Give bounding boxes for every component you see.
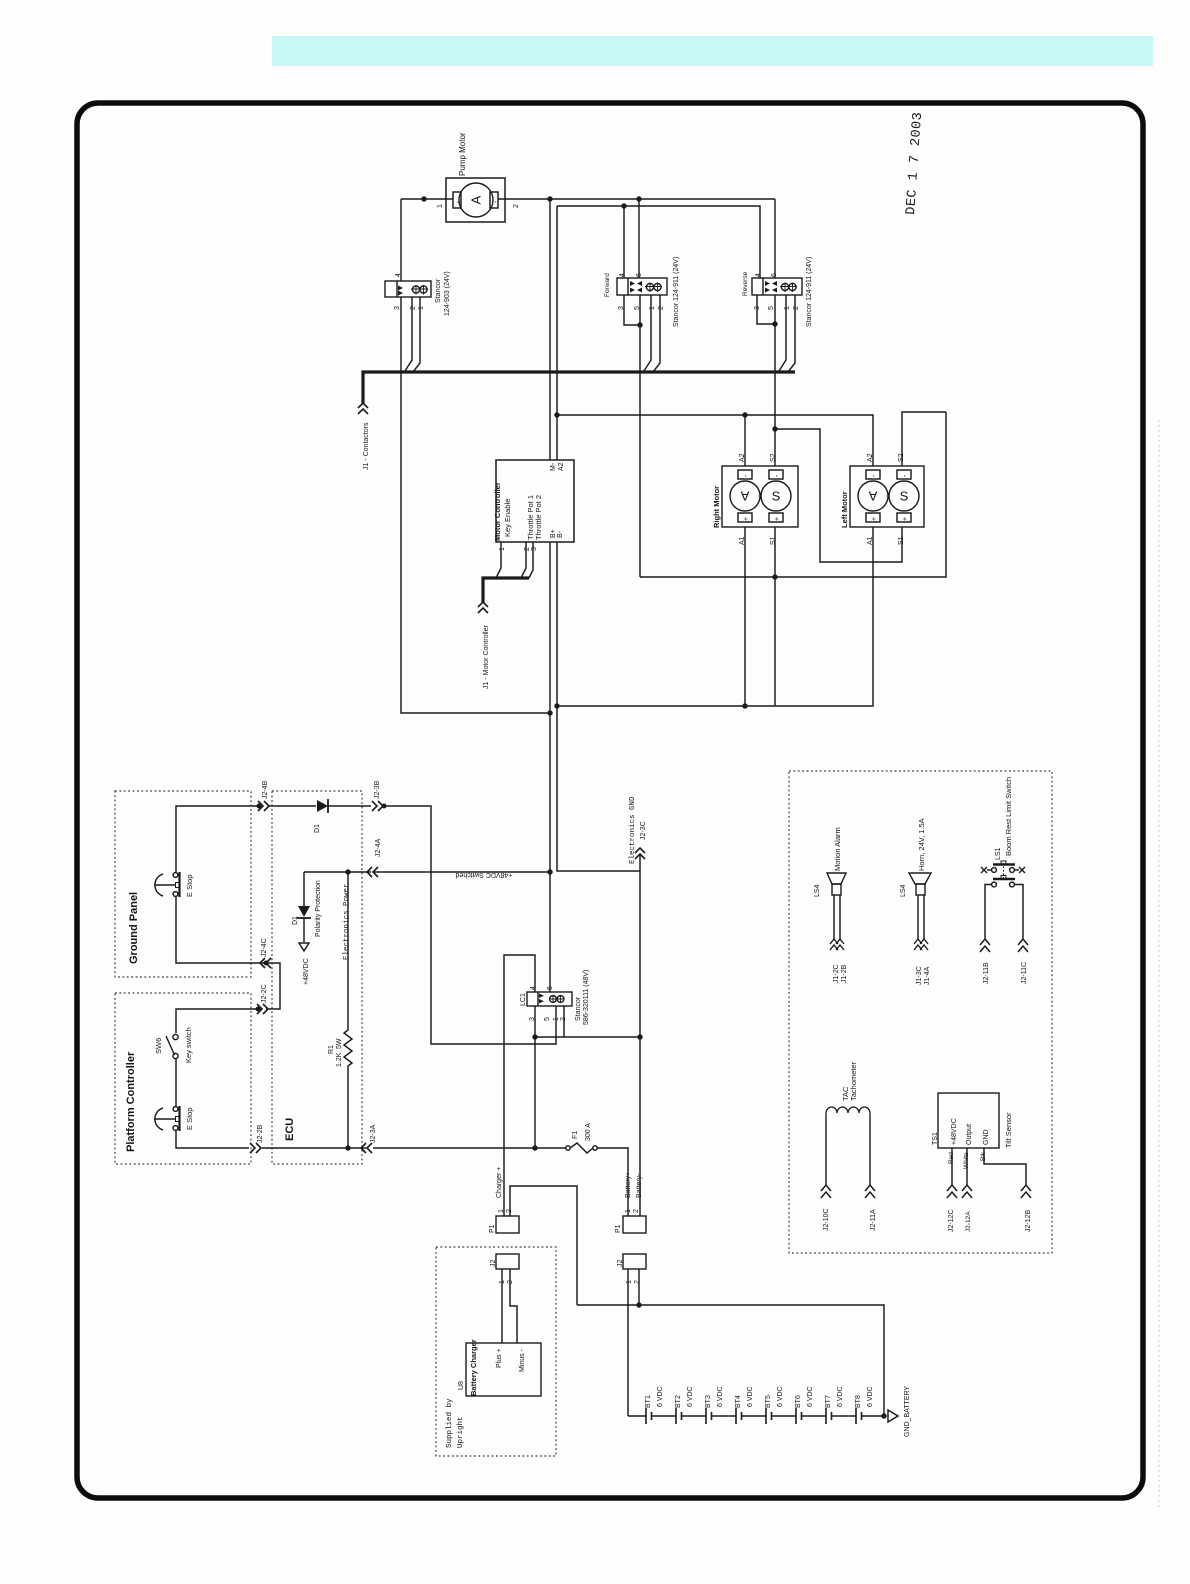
wire motion alarm lead a: [833, 895, 835, 940]
wire left pump feed vertical: [400, 199, 402, 281]
chevron J2-4A: [367, 867, 378, 877]
battery BT3 plates: [706, 1408, 712, 1424]
chevron J2-10C: [821, 1185, 831, 1198]
node forward pin4 tap: [622, 204, 626, 208]
wire LC1 coil pin2 stub: [563, 1006, 565, 1037]
svg-text:Stancor 124-911 (24V): Stancor 124-911 (24V): [673, 257, 680, 327]
svg-text:2: 2: [658, 306, 665, 310]
limit switch LS1 lower contact a: [992, 882, 997, 887]
svg-text:Battery Charger: Battery Charger: [469, 1339, 478, 1396]
svg-text:Motion Alarm: Motion Alarm: [833, 827, 842, 871]
svg-text:3: 3: [394, 306, 401, 310]
battery BT2 plates: [676, 1408, 682, 1424]
svg-text:Key switch: Key switch: [184, 1027, 193, 1063]
key switch SW6 blade: [166, 1036, 175, 1055]
node J2-4B: [257, 804, 261, 808]
svg-text:3: 3: [531, 547, 538, 551]
net arrow +48VDC: [299, 943, 309, 951]
contactor LC1 Stancor 586-320111 box: [527, 992, 572, 1006]
svg-text:LS4: LS4: [814, 884, 821, 897]
svg-text:+: +: [871, 517, 878, 521]
connector J2 charger box: [496, 1254, 519, 1269]
dashed ground panel box: [115, 791, 251, 977]
limit switch LS1 tab top: [1001, 861, 1006, 865]
faint scan dotted edge line: [1158, 420, 1160, 1510]
contactor CR1 coil hatch: [411, 285, 428, 295]
svg-text:1: 1: [418, 306, 425, 310]
contactor forward coil hatch: [645, 283, 662, 293]
wire J2 charger pin2 into U8: [510, 1269, 517, 1343]
svg-text:6 VDC: 6 VDC: [777, 1386, 784, 1407]
estop platform bar: [178, 1106, 180, 1131]
estop platform arc: [155, 1108, 163, 1130]
battery BT4 plates: [736, 1408, 742, 1424]
wire reverse pin3 dogleg: [757, 295, 775, 324]
svg-text:2: 2: [507, 1280, 514, 1284]
limit switch LS1 bar bottom: [993, 878, 1015, 880]
wire reverse pin5 down to S2 right motor: [774, 295, 776, 466]
limit switch LS1 link line right: [1014, 869, 1019, 871]
wire P1 charger pin2 to charger return: [510, 1186, 577, 1305]
svg-text:6 VDC: 6 VDC: [687, 1386, 694, 1407]
svg-text:4: 4: [755, 273, 762, 277]
wire forward coil pin1 dogleg: [644, 295, 651, 371]
svg-text:Electronics Power: Electronics Power: [343, 883, 351, 960]
svg-text:BT2: BT2: [675, 1395, 682, 1408]
left motor armature circle: [858, 481, 888, 511]
pump motor - terminal: [490, 192, 498, 208]
chevron J2-3B: [372, 801, 383, 811]
svg-text:Pump Motor: Pump Motor: [458, 132, 467, 176]
svg-text:6 VDC: 6 VDC: [867, 1386, 874, 1407]
svg-text:Reverse: Reverse: [742, 271, 749, 296]
wire D1 polarity protection drop: [303, 872, 305, 906]
svg-text:BT7: BT7: [825, 1395, 832, 1408]
resistor R1 zigzag: [344, 872, 352, 1148]
wire LC1 coil return line: [535, 1036, 640, 1038]
svg-text:BT3: BT3: [705, 1395, 712, 1408]
svg-text:Tachometer: Tachometer: [849, 1061, 858, 1101]
chevron J2-12B: [1021, 1185, 1031, 1198]
svg-text:B-: B-: [557, 530, 564, 538]
wire forward coil pin2 dogleg: [653, 295, 660, 372]
svg-text:Supplied by: Supplied by: [446, 1398, 454, 1448]
wire key switch to platform estop: [175, 1058, 177, 1106]
estop ground panel plunger: [154, 884, 175, 886]
node right motor A2 tap: [743, 413, 747, 417]
svg-text:6: 6: [547, 986, 554, 990]
battery charger U8 box: [466, 1343, 541, 1396]
wire reverse coil pin1 dogleg: [779, 295, 786, 371]
svg-text:A: A: [868, 489, 877, 504]
svg-text:2: 2: [633, 1209, 640, 1213]
svg-text:6 VDC: 6 VDC: [657, 1386, 664, 1407]
wire forward pin4 drop: [623, 206, 625, 278]
wire charger return line: [577, 1305, 884, 1416]
svg-text:1: 1: [553, 1017, 560, 1021]
contactor LC1 coil circle b: [557, 996, 564, 1003]
svg-text:J1-3C: J1-3C: [916, 966, 923, 985]
wire LS1 to J2-11C: [1015, 885, 1024, 941]
svg-text:A: A: [740, 489, 749, 504]
limit switch LS1 contact left: [992, 868, 997, 873]
svg-text:J2-4C: J2-4C: [261, 938, 268, 957]
svg-text:LS1: LS1: [995, 847, 1002, 860]
wire J2-2C to key switch: [176, 1009, 257, 1033]
node S2 right branch: [773, 427, 777, 431]
svg-text:2: 2: [410, 306, 417, 310]
svg-text:S: S: [772, 489, 781, 504]
contactor forward contact arrows: [630, 281, 642, 293]
motion alarm LS4 body: [832, 884, 841, 895]
svg-text:3: 3: [754, 306, 761, 310]
node forward pin3 junction: [638, 323, 642, 327]
svg-text:6 VDC: 6 VDC: [837, 1386, 844, 1407]
contactor reverse coil circle a: [781, 283, 788, 290]
svg-text:A2: A2: [867, 453, 874, 462]
node A1-right junction: [743, 704, 747, 708]
node J2-2C: [256, 1007, 260, 1011]
dashed supplied-by-upright box: [436, 1247, 556, 1456]
chevron J2-11C: [1018, 939, 1028, 952]
node LC1 pin3: [533, 1035, 537, 1039]
battery BT1 plates: [646, 1408, 652, 1424]
estop ground panel arc: [155, 874, 163, 896]
wire TS1 blk lead: [984, 1148, 1026, 1186]
svg-text:6 VDC: 6 VDC: [717, 1386, 724, 1407]
svg-text:A2: A2: [739, 453, 746, 462]
svg-text:J2-12B: J2-12B: [1025, 1209, 1032, 1232]
svg-text:2: 2: [634, 1280, 641, 1284]
svg-text:1: 1: [626, 1280, 633, 1284]
svg-text:E Stop: E Stop: [185, 874, 194, 897]
chevron J2-11A: [865, 1185, 875, 1198]
node J2-3B: [382, 804, 386, 808]
wire S2-left loop right edge: [640, 412, 946, 577]
contactor reverse coil circle b: [789, 283, 796, 290]
limit switch LS1 dotted link: [1003, 863, 1005, 878]
horn LS4 symbol: [909, 873, 931, 884]
svg-text:White: White: [963, 1152, 970, 1169]
svg-text:S2: S2: [770, 453, 777, 462]
wire horn lead a: [917, 895, 919, 940]
wire throttle pot2 pin3 dogleg: [529, 542, 533, 578]
svg-text:S2: S2: [898, 453, 905, 462]
svg-text:D1: D1: [292, 916, 299, 925]
left motor field circle: [889, 481, 919, 511]
svg-text:Charger +: Charger +: [496, 1167, 503, 1198]
wire J2-4A to B+: [373, 871, 550, 873]
contactor CR1 coil circle a: [412, 286, 419, 293]
svg-text:BT4: BT4: [735, 1395, 742, 1408]
diode D1 supply: [317, 800, 328, 812]
svg-text:J2-11C: J2-11C: [1021, 962, 1028, 984]
limit switch LS1 lower contact b: [1010, 882, 1015, 887]
node B+ +48V tap: [548, 870, 552, 874]
dashed platform controller box: [115, 993, 251, 1164]
estop platform plunger: [154, 1118, 175, 1120]
wire pump motor pin1 lead: [401, 198, 453, 200]
estop ground panel bar: [178, 872, 180, 897]
contactor forward coil circle b: [654, 283, 661, 290]
estop ground panel notch: [176, 883, 180, 888]
svg-text:Polarity Protection: Polarity Protection: [315, 880, 322, 937]
svg-text:Tilt Sensor: Tilt Sensor: [1004, 1112, 1013, 1148]
node reverse pin3 junction: [773, 322, 777, 326]
diode D1 polarity protection: [298, 906, 310, 917]
svg-text:1: 1: [498, 1209, 505, 1213]
svg-text:J2-12A: J2-12A: [965, 1211, 972, 1232]
right motor A1 terminal: [738, 513, 752, 522]
svg-text:GND_BATTERY: GND_BATTERY: [904, 1386, 911, 1437]
svg-text:J2-3B: J2-3B: [374, 780, 381, 799]
contactor CR1 divider: [396, 281, 398, 297]
wire J2-3B to LC1 coil pin1: [384, 806, 556, 1044]
svg-text:+: +: [902, 517, 909, 521]
wire horn lead b: [923, 895, 925, 940]
svg-text:4: 4: [530, 986, 537, 990]
node on pump+ lead: [422, 197, 426, 201]
contactor CR1 coil circle b: [420, 286, 427, 293]
svg-text:Motor Controller: Motor Controller: [493, 482, 502, 541]
svg-text:2: 2: [524, 547, 531, 551]
svg-text:1: 1: [499, 547, 506, 551]
svg-text:GND: GND: [983, 1129, 990, 1145]
battery BT8 plates: [856, 1408, 862, 1424]
svg-text:U8: U8: [458, 1381, 465, 1390]
svg-text:1: 1: [499, 1280, 506, 1284]
left motor S2 terminal: [897, 470, 911, 479]
wire motion alarm lead b: [839, 895, 841, 940]
wire J2-3A to fuse F1: [373, 1147, 566, 1149]
diode D1 cathode bar: [327, 799, 329, 813]
right motor S2 terminal: [769, 470, 783, 479]
wire tach lead left: [825, 1117, 827, 1186]
wire forward pin3 dogleg: [624, 295, 640, 325]
svg-text:3: 3: [618, 306, 625, 310]
wire A2 bus to drive motors: [557, 415, 873, 466]
left motor A1 terminal: [866, 513, 880, 522]
wire J2-2B across ECU bottom: [262, 1147, 366, 1149]
node charger return join: [637, 1303, 641, 1307]
chevron J2-3A: [361, 1143, 372, 1153]
svg-text:J1-2B: J1-2B: [841, 964, 848, 983]
wire TS1 red lead: [951, 1148, 953, 1186]
wire reverse coil pin2 dogleg: [788, 295, 795, 372]
pump motor armature circle: [459, 183, 493, 217]
svg-text:LC1: LC1: [520, 993, 527, 1006]
svg-text:J2: J2: [617, 1260, 624, 1268]
wire B- vertical: [557, 542, 640, 871]
limit switch LS1 X left: [981, 867, 987, 873]
svg-text:1: 1: [625, 1209, 632, 1213]
svg-text:2: 2: [560, 1017, 567, 1021]
svg-text:ECU: ECU: [284, 1118, 296, 1141]
contactor CR1 contact arrows: [398, 286, 403, 296]
svg-text:J1-4A: J1-4A: [924, 966, 931, 985]
chevron J2-2C: [257, 1004, 268, 1014]
svg-text:3: 3: [529, 1017, 536, 1021]
horn LS4 body: [916, 884, 925, 895]
wire platform estop bottom to J2-2B: [176, 1130, 249, 1148]
wire battery series links: [628, 1415, 884, 1417]
svg-text:2: 2: [506, 1209, 513, 1213]
svg-text:Boom Rest Limit Switch: Boom Rest Limit Switch: [1004, 777, 1013, 856]
svg-text:Output: Output: [966, 1124, 973, 1145]
contactor reverse Stancor 124-911 box: [752, 278, 802, 295]
svg-text:A1: A1: [739, 536, 746, 545]
node B- return junction: [555, 704, 559, 708]
wire contactor CR1 pin3 down left side: [401, 297, 550, 713]
dashed accessory box: [789, 771, 1052, 1253]
svg-text:J2-4A: J2-4A: [375, 838, 382, 857]
pump motor + terminal: [453, 192, 461, 208]
wire A1-right vertical: [744, 527, 746, 706]
limit switch LS1 X right: [1019, 867, 1025, 873]
svg-text:4: 4: [619, 273, 626, 277]
chevron J2-11B: [980, 939, 990, 952]
svg-text:J2-2C: J2-2C: [261, 984, 268, 1003]
fuse F1 right pigtail: [593, 1146, 597, 1150]
key switch SW6 contact b: [173, 1053, 178, 1058]
svg-text:586-320111 (48V): 586-320111 (48V): [583, 970, 590, 1025]
svg-text:J2-2B: J2-2B: [257, 1124, 264, 1143]
gnd battery triangle: [888, 1410, 898, 1422]
connector J2 battery box: [623, 1254, 646, 1269]
wire LC1 pin4 to charger P1: [504, 955, 535, 1216]
node LC1 pin3 drop at battery+ line: [533, 1146, 537, 1150]
estop platform notch: [176, 1117, 180, 1122]
contactor LC1 divider: [537, 992, 539, 1006]
left motor box: [850, 466, 924, 527]
cyan highlight bar: [272, 36, 1153, 66]
wire S1-right vertical: [774, 527, 776, 706]
svg-text:S1: S1: [770, 536, 777, 545]
node B+ join left feed: [548, 711, 552, 715]
svg-text:Key Enable: Key Enable: [503, 499, 512, 537]
contactor reverse divider: [762, 278, 764, 295]
wire CR1 coil pin2 dogleg to J1 bus: [405, 297, 412, 371]
chevron J1-Contactors: [358, 403, 368, 414]
wire S2-right to S1-left crossover: [775, 429, 902, 562]
svg-text:Plus +: Plus +: [496, 1348, 503, 1368]
contactor forward divider: [627, 278, 629, 295]
svg-text:1: 1: [437, 204, 444, 208]
svg-text:5: 5: [768, 306, 775, 310]
motion alarm LS4 horn symbol: [827, 873, 846, 884]
right motor box: [722, 466, 798, 527]
svg-text:Electronics GND: Electronics GND: [629, 796, 637, 864]
motor controller U1 box: [496, 460, 574, 542]
contactor reverse contact arrows: [765, 281, 777, 293]
wire pump motor pin2 lead to S2 drop: [498, 198, 775, 200]
svg-text:J2-4B: J2-4B: [262, 780, 269, 799]
wire J2 battery pin2 stub: [638, 1269, 640, 1305]
wire forward pin5 down to S2-left loop: [639, 295, 641, 577]
chevron J2-12C: [947, 1185, 957, 1198]
border frame: [77, 103, 1143, 1498]
contactor forward coil circle a: [646, 283, 653, 290]
svg-text:Right Motor: Right Motor: [712, 486, 721, 528]
chevron J1-2C: [830, 939, 838, 950]
wire LC1 pin3 stub: [534, 1006, 536, 1037]
svg-text:5W: 5W: [336, 1038, 343, 1049]
svg-text:SW6: SW6: [154, 1038, 163, 1054]
wire ground panel estop bottom to J2-4C: [176, 897, 265, 963]
chevron J2-4B: [258, 801, 269, 811]
svg-text:J2-3A: J2-3A: [370, 1124, 377, 1143]
svg-text:Forward: Forward: [604, 273, 611, 297]
pump motor M box: [446, 178, 505, 222]
chevron J2-12A: [962, 1185, 972, 1198]
estop ground panel contact b: [173, 892, 178, 897]
node R1 bottom: [346, 1146, 350, 1150]
svg-text:Throttle Pot 2: Throttle Pot 2: [534, 495, 543, 540]
svg-text:J2-11B: J2-11B: [983, 962, 990, 984]
svg-text:+48VDC Switched: +48VDC Switched: [455, 871, 512, 878]
svg-text:LS4: LS4: [900, 884, 907, 897]
svg-text:J2-11A: J2-11A: [870, 1209, 877, 1231]
battery BT7 plates: [826, 1408, 832, 1424]
svg-text:P1: P1: [489, 1224, 496, 1233]
svg-text:J2: J2: [490, 1260, 497, 1268]
wire J2-4C to J2-2C link: [266, 963, 280, 1009]
svg-text:6: 6: [636, 273, 643, 277]
svg-text:BT6: BT6: [795, 1395, 802, 1408]
node M- tap: [548, 197, 552, 201]
battery BT6 plates: [796, 1408, 802, 1424]
connector P1 charger box: [496, 1216, 519, 1233]
svg-text:J2-12C: J2-12C: [948, 1209, 955, 1232]
chevron J1-3C: [914, 939, 922, 950]
limit switch LS1 link line left: [987, 869, 991, 871]
contactor forward Stancor 124-911 box: [617, 278, 667, 295]
contactor CR1 Stancor 124-903 box: [385, 281, 431, 297]
svg-text:+: +: [774, 517, 781, 521]
wire tach lead right: [869, 1117, 871, 1186]
contactor LC1 coil hatch: [549, 995, 564, 1003]
svg-text:Horn, 24V, 1.5A: Horn, 24V, 1.5A: [917, 818, 926, 871]
wire D1 polarity to +48VDC arrow: [303, 918, 305, 942]
wire ground panel estop top to J2-4B: [176, 806, 257, 873]
battery BT5 plates: [766, 1408, 772, 1424]
svg-text:F1: F1: [572, 1131, 579, 1139]
wire armature return B- line: [557, 527, 873, 706]
svg-text:2: 2: [513, 204, 520, 208]
svg-text:J2-10C: J2-10C: [823, 1208, 830, 1231]
svg-text:A2: A2: [558, 462, 565, 471]
right motor armature circle: [730, 481, 760, 511]
svg-text:6 VDC: 6 VDC: [807, 1386, 814, 1407]
node A2 bus tap: [555, 413, 559, 417]
svg-text:A: A: [469, 195, 484, 204]
svg-text:124-903 (24V): 124-903 (24V): [444, 271, 451, 316]
contactor LC1 contact arrows: [539, 994, 544, 1004]
wire A2 line to contactor pins 4: [557, 206, 760, 278]
svg-text:4: 4: [395, 273, 402, 277]
estop ground panel contact a: [173, 873, 178, 878]
svg-text:Stancor: Stancor: [435, 278, 442, 303]
estop platform contact a: [173, 1107, 178, 1112]
svg-text:1: 1: [649, 306, 656, 310]
svg-text:Platform Controller: Platform Controller: [125, 1051, 137, 1152]
svg-text:5: 5: [634, 306, 641, 310]
key switch SW6 contact a: [173, 1034, 178, 1039]
node LC1 gnd corner: [638, 1035, 642, 1039]
wire CR1 coil pin1 dogleg to J1 bus: [413, 297, 420, 372]
node J2-4C: [264, 961, 268, 965]
wire right motor A2 drop: [744, 415, 746, 466]
